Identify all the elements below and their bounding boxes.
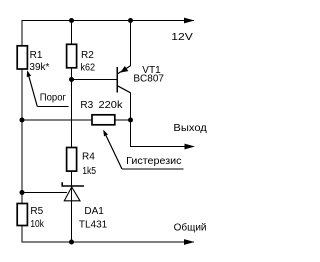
svg-text:k62: k62: [80, 63, 95, 74]
svg-text:TL431: TL431: [79, 219, 108, 230]
svg-text:Гистерезис: Гистерезис: [126, 156, 181, 167]
svg-text:220k: 220k: [99, 100, 124, 111]
svg-text:Выход: Выход: [173, 123, 207, 134]
svg-text:BC807: BC807: [133, 73, 164, 84]
svg-text:R3: R3: [80, 100, 93, 111]
svg-text:Общий: Общий: [174, 221, 207, 233]
svg-text:39k*: 39k*: [29, 62, 49, 73]
svg-text:R1: R1: [30, 50, 43, 61]
svg-text:12V: 12V: [171, 32, 193, 43]
svg-text:R4: R4: [82, 152, 95, 163]
svg-text:R5: R5: [30, 206, 43, 217]
svg-text:Порог: Порог: [40, 93, 67, 104]
svg-text:DA1: DA1: [84, 206, 104, 217]
svg-text:1k5: 1k5: [82, 166, 96, 177]
svg-text:R2: R2: [81, 50, 94, 61]
svg-text:10k: 10k: [30, 219, 44, 230]
